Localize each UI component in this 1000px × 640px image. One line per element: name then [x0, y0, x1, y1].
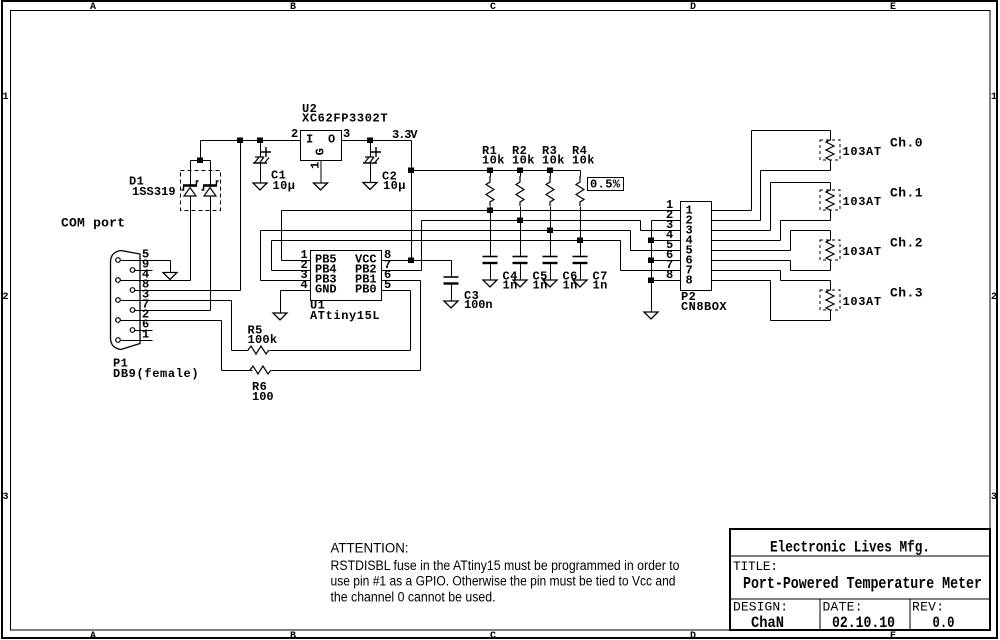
svg-text:ATTENTION:: ATTENTION:	[331, 541, 409, 556]
svg-text:ChaN: ChaN	[751, 614, 784, 632]
svg-text:ATtiny15L: ATtiny15L	[310, 309, 380, 323]
svg-text:10µ: 10µ	[383, 179, 406, 193]
svg-text:1: 1	[142, 328, 150, 342]
svg-text:8: 8	[666, 268, 674, 282]
svg-text:02.10.10: 02.10.10	[832, 614, 895, 632]
svg-text:REV:: REV:	[912, 600, 944, 615]
svg-text:1SS319: 1SS319	[132, 185, 176, 199]
svg-text:Ch.1: Ch.1	[890, 186, 923, 201]
svg-text:103AT: 103AT	[843, 145, 882, 159]
svg-text:10k: 10k	[512, 154, 535, 168]
svg-text:2: 2	[991, 292, 997, 303]
svg-text:RSTDISBL fuse in the ATtiny15: RSTDISBL fuse in the ATtiny15 must be pr…	[331, 558, 680, 573]
svg-text:1: 1	[991, 92, 997, 103]
svg-text:8: 8	[686, 274, 694, 288]
svg-text:Ch.3: Ch.3	[890, 286, 923, 301]
svg-text:2: 2	[2, 292, 8, 303]
svg-text:3.3V: 3.3V	[392, 128, 418, 142]
svg-text:103AT: 103AT	[843, 295, 882, 309]
svg-text:I: I	[306, 133, 314, 147]
svg-text:10k: 10k	[482, 154, 505, 168]
svg-text:1n: 1n	[503, 279, 518, 293]
svg-text:B: B	[290, 631, 296, 640]
svg-text:D: D	[690, 2, 696, 13]
svg-text:E: E	[890, 631, 896, 640]
svg-text:Ch.2: Ch.2	[890, 236, 923, 251]
svg-text:B: B	[290, 2, 296, 13]
svg-text:COM port: COM port	[61, 216, 125, 231]
svg-text:0.0: 0.0	[933, 614, 955, 632]
svg-text:Ch.0: Ch.0	[890, 136, 923, 151]
svg-text:0.5%: 0.5%	[590, 178, 621, 192]
svg-text:10k: 10k	[542, 154, 565, 168]
svg-text:GND: GND	[315, 283, 337, 297]
svg-text:the channel 0 cannot be used.: the channel 0 cannot be used.	[331, 590, 496, 605]
svg-text:DESIGN:: DESIGN:	[733, 600, 788, 615]
svg-text:100k: 100k	[248, 333, 278, 347]
svg-text:5: 5	[384, 278, 392, 292]
svg-text:A: A	[90, 631, 96, 640]
svg-text:2: 2	[291, 127, 299, 141]
svg-text:C: C	[490, 631, 496, 640]
svg-text:D: D	[690, 631, 696, 640]
svg-text:3: 3	[343, 127, 351, 141]
svg-text:TITLE:: TITLE:	[733, 559, 778, 574]
svg-text:1n: 1n	[533, 279, 548, 293]
svg-text:DB9(female): DB9(female)	[113, 367, 199, 381]
svg-text:10µ: 10µ	[273, 179, 296, 193]
svg-text:Port-Powered Temperature Meter: Port-Powered Temperature Meter	[743, 574, 982, 593]
svg-text:4: 4	[301, 278, 309, 292]
svg-text:G: G	[314, 148, 328, 156]
svg-text:1: 1	[2, 92, 8, 103]
svg-text:C: C	[490, 2, 496, 13]
svg-text:3: 3	[991, 492, 997, 503]
svg-text:10k: 10k	[572, 154, 595, 168]
svg-text:100n: 100n	[464, 298, 493, 312]
svg-text:Electronic Lives Mfg.: Electronic Lives Mfg.	[770, 539, 930, 557]
svg-text:1n: 1n	[563, 279, 578, 293]
svg-text:3: 3	[2, 492, 8, 503]
svg-text:A: A	[90, 2, 96, 13]
svg-text:CN8BOX: CN8BOX	[681, 300, 727, 314]
svg-text:DATE:: DATE:	[823, 600, 863, 615]
svg-text:use pin #1 as a GPIO. Otherwis: use pin #1 as a GPIO. Otherwise the pin …	[331, 574, 676, 589]
svg-text:O: O	[328, 133, 336, 147]
svg-text:1n: 1n	[593, 279, 608, 293]
svg-text:103AT: 103AT	[843, 245, 882, 259]
svg-text:103AT: 103AT	[843, 195, 882, 209]
svg-text:1: 1	[309, 161, 323, 169]
svg-text:XC62FP3302T: XC62FP3302T	[302, 112, 388, 126]
svg-text:PB0: PB0	[355, 283, 377, 297]
svg-text:E: E	[890, 2, 896, 13]
svg-text:100: 100	[252, 390, 274, 404]
